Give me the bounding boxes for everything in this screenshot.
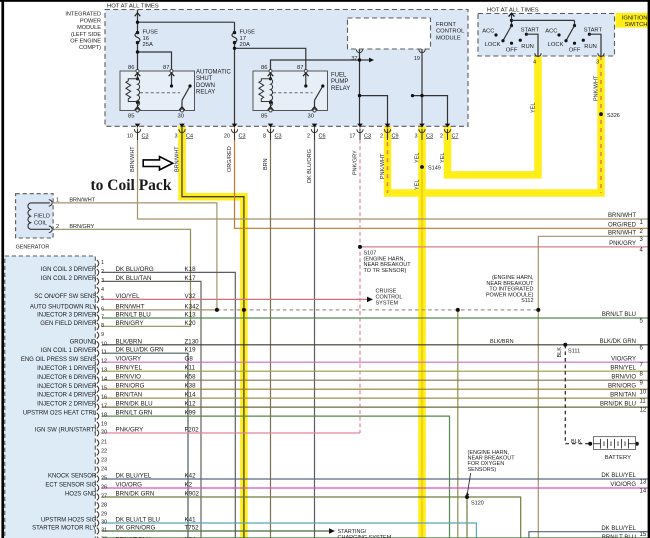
PCM left signal labels — [21, 267, 97, 532]
wire PNK/GRY dashed: IPM 17 C3 down through S107 to PCM pin 20 row — [359, 126, 361, 433]
svg-text:BLK/BRN: BLK/BRN — [490, 339, 514, 345]
dashed mechanical link ASD — [140, 92, 180, 94]
svg-text:19: 19 — [101, 422, 107, 428]
svg-text:LOCK: LOCK — [548, 42, 564, 48]
svg-text:C4: C4 — [186, 133, 193, 139]
battery cells — [594, 439, 636, 449]
svg-text:CONTROL: CONTROL — [436, 29, 465, 35]
core dashes of PNK/WHT wire (stub at 2 C9) — [387, 126, 389, 193]
svg-text:30: 30 — [101, 520, 107, 526]
ignition switch section 2 wiper — [566, 26, 575, 41]
svg-text:S111: S111 — [568, 348, 580, 354]
svg-text:4: 4 — [101, 287, 104, 293]
svg-text:BRN/ORG: BRN/ORG — [116, 383, 145, 390]
svg-text:PNK/WHT: PNK/WHT — [594, 75, 600, 101]
svg-text:BRN/LT BLU: BRN/LT BLU — [116, 312, 151, 319]
svg-text:ACC: ACC — [482, 29, 494, 35]
svg-text:SWITCH: SWITCH — [625, 22, 648, 28]
svg-text:S120: S120 — [471, 500, 484, 506]
splice S112 — [536, 308, 540, 312]
coil spring of FPR relay (wavy line between dots) — [271, 79, 273, 106]
wire fuse17 output to FPR 87 and down to 20 C3 — [234, 43, 236, 127]
ASD switch contact 87 stub — [171, 71, 173, 86]
svg-text:BRN/DK GRN: BRN/DK GRN — [116, 491, 155, 498]
wire BRN/YEL K11: PCM pin 13 to right edge (line 8) — [102, 370, 650, 372]
svg-text:K14: K14 — [185, 392, 197, 399]
svg-text:20: 20 — [224, 133, 230, 139]
svg-text:37: 37 — [351, 56, 357, 62]
svg-text:VIO/ORG: VIO/ORG — [610, 482, 636, 488]
wire DK BLU/YEL K42: PCM pin 25 to right edge (line 13) — [102, 478, 650, 480]
wire BLK/BRN Z130: PCM pin 10 to S111 — [102, 344, 565, 346]
wire feed branch to fuse 17 — [138, 21, 235, 23]
svg-text:SC ON/OFF SW SENS: SC ON/OFF SW SENS — [34, 294, 96, 300]
svg-text:VIO/GRY: VIO/GRY — [116, 356, 142, 363]
junction dot ignition feed — [510, 19, 513, 22]
svg-text:12: 12 — [101, 359, 107, 365]
label IGNITION SWITCH highlighted — [616, 13, 650, 28]
svg-text:S112: S112 — [521, 298, 533, 304]
svg-text:DK BLU/DK GRN: DK BLU/DK GRN — [116, 347, 164, 354]
svg-text:PNK/GRY: PNK/GRY — [609, 241, 636, 247]
svg-text:K41: K41 — [185, 517, 197, 524]
svg-text:FUSE: FUSE — [240, 30, 256, 36]
svg-text:BRN/ORG: BRN/ORG — [608, 383, 636, 389]
svg-text:OFF: OFF — [569, 48, 581, 54]
svg-text:BRN: BRN — [263, 158, 269, 170]
svg-text:K13: K13 — [185, 312, 197, 319]
svg-text:14: 14 — [640, 489, 647, 495]
svg-text:C3: C3 — [364, 133, 371, 139]
svg-text:C3: C3 — [275, 133, 282, 139]
svg-text:DK BLU/YEL: DK BLU/YEL — [601, 473, 636, 479]
svg-text:DK BLU/LT BLU: DK BLU/LT BLU — [116, 517, 160, 524]
svg-text:3: 3 — [596, 60, 599, 66]
svg-text:SYSTEM: SYSTEM — [376, 301, 399, 307]
svg-text:INJECTOR 4 DRIVER: INJECTOR 4 DRIVER — [37, 393, 97, 399]
svg-text:2: 2 — [101, 269, 104, 275]
coil resistor zigzag of ASD relay — [126, 79, 138, 102]
svg-text:S149: S149 — [428, 166, 441, 172]
battery box — [594, 437, 636, 450]
junction dot feed/fuse16 — [136, 21, 139, 24]
svg-text:PNK/GRY: PNK/GRY — [116, 427, 144, 434]
svg-text:C7: C7 — [452, 133, 459, 139]
svg-text:VIO/ORG: VIO/ORG — [116, 482, 143, 489]
svg-text:START: START — [584, 28, 603, 34]
battery terminal dots — [588, 442, 592, 446]
wire BRN/WHT: generator field coil pin 1 to junction, down to PCM pin6 row — [53, 203, 217, 310]
wire BRN/WHT: branch to right edge (line 1) — [138, 203, 650, 219]
svg-text:15: 15 — [640, 532, 647, 538]
wire BRN/WHT highlighted: ASD relay pin 30 (3 C4) to coil pack, bottom exit — [182, 126, 244, 538]
svg-text:1: 1 — [56, 198, 59, 204]
coil resistor zigzag of FPR relay — [259, 79, 271, 102]
svg-text:BRN/VIO: BRN/VIO — [116, 374, 142, 381]
relay FPR (fuel pump) — [253, 65, 350, 120]
svg-text:PNK/GRY: PNK/GRY — [353, 150, 359, 175]
pin 3 C3 connector — [419, 129, 425, 140]
svg-text:BRN/TAN: BRN/TAN — [116, 392, 143, 399]
svg-text:2: 2 — [440, 133, 443, 139]
svg-text:AUTOMATIC: AUTOMATIC — [196, 70, 231, 76]
svg-text:HOT AT ALL TIMES: HOT AT ALL TIMES — [487, 8, 539, 14]
svg-text:26: 26 — [101, 485, 107, 491]
svg-text:K902: K902 — [185, 491, 200, 498]
svg-text:POWER: POWER — [80, 18, 101, 24]
junction dot gen1/K342 — [215, 308, 219, 312]
svg-text:3: 3 — [414, 133, 417, 139]
svg-text:Z130: Z130 — [185, 338, 200, 345]
fuse F17 20A — [232, 30, 255, 48]
arrow right at FCM 37 junction — [369, 58, 374, 63]
leader line to S120 — [467, 473, 470, 494]
svg-text:ORG/RED: ORG/RED — [227, 146, 233, 172]
generator dashed border — [16, 194, 54, 238]
wire BLK/DK GRN: S111 to right edge (line 6) — [565, 344, 650, 346]
core line of highlighted YEL wire — [421, 126, 423, 538]
pin 10 C3 connector — [134, 129, 140, 140]
svg-text:IGN COIL 3 DRIVER: IGN COIL 3 DRIVER — [41, 267, 97, 273]
svg-text:K342: K342 — [185, 303, 200, 310]
svg-text:TO TR SENSOR): TO TR SENSOR) — [364, 268, 407, 274]
wire FCM pin 19 to 3 C3 / 2 C7 — [421, 49, 423, 126]
svg-text:UPSTRM HO2S SIG: UPSTRM HO2S SIG — [41, 518, 97, 524]
svg-text:K58: K58 — [185, 374, 197, 381]
pin 2 C9 connector — [384, 129, 390, 140]
wire BRN: IPM 8 C3 down off page — [270, 126, 272, 538]
svg-text:17: 17 — [240, 36, 246, 42]
junction dot FCM37 branch to 2 C9 — [358, 94, 361, 97]
section 1 output to pin 4 — [526, 34, 538, 56]
svg-text:BATTERY: BATTERY — [605, 455, 631, 461]
wire VIO/GRY G8: PCM pin 12 to right edge (line 7) — [102, 361, 650, 363]
svg-text:GEN FIELD DRIVER: GEN FIELD DRIVER — [40, 321, 97, 327]
wire DK BLU/ORG: IPM 2 C6 down off page — [314, 126, 316, 538]
svg-text:2: 2 — [307, 133, 310, 139]
PCM pin socket glyphs — [97, 260, 99, 538]
junction dot K342 mid — [456, 308, 460, 312]
pin 20 C3 connector — [231, 129, 237, 140]
svg-text:24: 24 — [101, 467, 107, 473]
wire ORG/RED: IPM 20 C3 to right edge (line 2) — [235, 126, 650, 228]
svg-text:10: 10 — [101, 341, 107, 347]
svg-text:C6: C6 — [319, 133, 326, 139]
svg-text:3: 3 — [174, 133, 177, 139]
svg-text:BLK: BLK — [571, 439, 582, 445]
svg-text:16: 16 — [143, 36, 149, 42]
svg-text:T752: T752 — [185, 525, 200, 532]
junction dot coilpack/K342 — [242, 308, 246, 312]
svg-text:31: 31 — [101, 528, 107, 534]
svg-text:DK BLU/YEL: DK BLU/YEL — [116, 473, 152, 480]
svg-text:22: 22 — [101, 449, 107, 455]
svg-text:18: 18 — [101, 413, 107, 419]
wire fuse16 output to ASD relay pins 86 and 87 — [137, 43, 139, 71]
svg-text:BLK/BRN: BLK/BRN — [116, 338, 142, 345]
svg-text:BRN/TAN: BRN/TAN — [610, 392, 636, 398]
svg-text:30: 30 — [178, 114, 184, 120]
svg-text:COMPT): COMPT) — [79, 45, 101, 51]
svg-text:30: 30 — [308, 114, 314, 120]
svg-text:15: 15 — [101, 386, 107, 392]
svg-text:9: 9 — [101, 332, 104, 338]
svg-text:K17: K17 — [185, 275, 197, 282]
svg-text:START: START — [521, 28, 540, 34]
svg-text:14: 14 — [101, 377, 107, 383]
wire BRN/GRY: generator field coil pin 2 to PCM pin 8 (GEN FIELD DRIVER K20) — [53, 229, 191, 326]
svg-text:PNK/WHT: PNK/WHT — [380, 153, 386, 179]
connector circles at FPR pins — [269, 70, 316, 113]
section 2 position dots — [557, 33, 560, 36]
svg-text:DK BLU/TAN: DK BLU/TAN — [116, 275, 152, 282]
svg-text:ORG/RED: ORG/RED — [608, 223, 637, 229]
svg-text:29: 29 — [101, 511, 107, 517]
integrated power module dashed border — [105, 10, 468, 127]
pin 17 C3 connector — [357, 129, 363, 140]
svg-text:FUEL: FUEL — [331, 73, 347, 79]
svg-text:(LEFT SIDE: (LEFT SIDE — [71, 32, 101, 38]
generator pin 2 connector — [49, 226, 52, 233]
coil spring of ASD relay (wavy line between dots) — [138, 79, 140, 106]
splice S326 — [599, 112, 603, 116]
wire from K342 junction down off page — [457, 310, 459, 538]
svg-text:BRN/WHT: BRN/WHT — [608, 231, 636, 237]
svg-text:ENG OIL PRESS SW SENS: ENG OIL PRESS SW SENS — [21, 357, 96, 363]
wire VIO/ORG K2: PCM pin 26 to right edge (line 14) — [102, 487, 650, 489]
svg-text:RUN: RUN — [584, 44, 597, 50]
svg-text:85: 85 — [128, 114, 134, 120]
svg-text:BRN/GRY: BRN/GRY — [116, 320, 144, 327]
svg-text:STARTER MOTOR RLY: STARTER MOTOR RLY — [32, 526, 96, 532]
svg-text:BRN/WHT: BRN/WHT — [175, 146, 181, 172]
svg-text:K99: K99 — [185, 410, 197, 417]
wire BRN/VIO K58: PCM pin 14 to right edge (line 9) — [102, 379, 650, 381]
wire DK GRN/ORG T752: PCM pin 31 to starting/charging arrow — [102, 530, 330, 532]
connector chevron at ignition feed — [509, 13, 515, 16]
wire DK BLU/ORG K18: PCM pin 2 to bottom (ign coil 3) — [102, 272, 235, 538]
core line of highlighted BRN/WHT wire — [182, 126, 244, 538]
wire BRN/ORG K38: PCM pin 15 to right edge (line 10) — [102, 388, 650, 390]
svg-text:YEL: YEL — [415, 180, 421, 190]
wire PNK/WHT highlighted: ignition switch pin 3 to IPM 2 C9 — [388, 56, 602, 193]
connector fork at ignition pin 4 — [535, 53, 541, 56]
svg-text:C3: C3 — [142, 133, 149, 139]
connector circles at ASD pins — [136, 70, 184, 113]
svg-text:MODULE: MODULE — [436, 35, 461, 41]
svg-text:25A: 25A — [143, 42, 153, 48]
svg-text:27: 27 — [101, 494, 107, 500]
generator pin 1 connector — [49, 200, 52, 207]
wire feed to second switch section — [512, 19, 575, 21]
svg-text:5: 5 — [101, 296, 104, 302]
svg-text:FRONT: FRONT — [436, 22, 456, 28]
svg-text:FUSE: FUSE — [143, 30, 159, 36]
wire BRN/LT GRN K99: PCM pin 18 down off page — [102, 416, 450, 538]
wire BLK dashed: S111 down and to battery — [565, 345, 590, 444]
wire BRN/LT BLU K13: PCM pin 7 to right edge (line 5) — [102, 317, 650, 319]
front control module dashed border — [348, 18, 431, 49]
wire FCM pin 37 to fuel pump relay 86 and to 17 C3 / 2 C9 — [359, 49, 361, 126]
svg-text:12: 12 — [640, 408, 647, 414]
ignition switch section 1 wiper — [503, 26, 512, 41]
wire YEL highlighted: ignition switch pin 4 to IPM 2 C7 — [448, 56, 539, 175]
wire BRN/WHT K342 solid part: PCM pin 6 to junction — [102, 309, 217, 311]
svg-text:F202: F202 — [185, 427, 200, 434]
svg-text:AUTO SHUTDOWN RLY: AUTO SHUTDOWN RLY — [30, 305, 96, 311]
svg-text:10: 10 — [640, 390, 647, 396]
svg-text:INJECTOR 1 DRIVER: INJECTOR 1 DRIVER — [37, 366, 97, 372]
wire PNK/GRY: S107 to right edge (line 4) — [360, 246, 650, 248]
svg-text:K20: K20 — [185, 320, 197, 327]
svg-text:8: 8 — [101, 323, 104, 329]
svg-text:17: 17 — [101, 404, 107, 410]
splice S111 — [563, 343, 567, 347]
svg-text:RUN: RUN — [521, 44, 534, 50]
svg-text:DK GRN/ORG: DK GRN/ORG — [116, 525, 156, 532]
svg-text:DK BLU/ORG: DK BLU/ORG — [307, 149, 313, 183]
PCM pin numbers — [101, 260, 107, 538]
svg-text:8: 8 — [263, 133, 266, 139]
wire BRN/TAN K14: PCM pin 16 to right edge (line 11) — [102, 397, 650, 399]
svg-text:HO2S GND: HO2S GND — [65, 492, 97, 498]
wire BRN/DK GRN K902: PCM pin 27 to S120 — [102, 496, 467, 498]
connector arrowheads at IPM bottom edge — [135, 124, 451, 128]
svg-text:11: 11 — [101, 350, 107, 356]
wire DK BLU/YEL: from off page bottom to right edge (line 15) — [529, 532, 650, 538]
svg-text:BRN/WHT: BRN/WHT — [69, 198, 95, 204]
svg-text:6: 6 — [101, 306, 104, 312]
svg-text:DK BLU/ORG: DK BLU/ORG — [116, 266, 154, 273]
svg-text:COIL: COIL — [34, 220, 47, 226]
splice S107 — [358, 245, 362, 249]
splice S120 — [465, 495, 469, 499]
svg-text:85: 85 — [261, 114, 267, 120]
svg-text:K12: K12 — [185, 401, 197, 408]
svg-text:C3: C3 — [239, 133, 246, 139]
svg-text:BRN/WHT: BRN/WHT — [608, 213, 636, 219]
svg-text:IGN SW (RUN/START): IGN SW (RUN/START) — [35, 428, 96, 434]
pin 2 C7 connector — [444, 129, 450, 140]
front control module box fill — [348, 18, 431, 49]
FPR switch arm — [315, 86, 323, 100]
svg-text:23: 23 — [101, 458, 107, 464]
core dashes of PNK/WHT wire (vertical from ignition switch) — [600, 56, 602, 193]
junction dot FCM37/FPR86 — [358, 58, 361, 61]
svg-text:VIO/GRY: VIO/GRY — [611, 356, 636, 362]
svg-text:UPSTRM O2S HEAT CTRL: UPSTRM O2S HEAT CTRL — [23, 411, 97, 417]
stub dot left of FCM19 branch — [411, 94, 414, 97]
svg-text:OFF: OFF — [506, 48, 518, 54]
svg-text:1: 1 — [101, 260, 104, 266]
junction dot fuse17 branch — [233, 47, 236, 50]
label S112 (engine harn near breakout to integrated power module) — [486, 275, 534, 304]
svg-text:DK BLU/YEL: DK BLU/YEL — [601, 526, 636, 532]
svg-text:BRN/LT GRN: BRN/LT GRN — [116, 410, 153, 417]
svg-text:IGN COIL 2 DRIVER: IGN COIL 2 DRIVER — [41, 276, 97, 282]
svg-text:SHUT: SHUT — [196, 76, 213, 82]
wire BRN/WHT: S112 up to right edge line 3 — [538, 236, 650, 310]
ignition switch box fill — [478, 14, 615, 57]
svg-text:BRN/DK BLU: BRN/DK BLU — [600, 401, 636, 407]
FPR switch contact 87 stub — [305, 71, 307, 86]
svg-text:BRN/WHT: BRN/WHT — [130, 146, 136, 172]
wire hot feed into IPM — [137, 10, 139, 33]
wire BRN/WHT: S112 down off page — [537, 310, 539, 538]
integrated power module box fill — [105, 10, 468, 127]
svg-text:BLK: BLK — [557, 347, 563, 358]
pin 2 C6 connector — [311, 129, 317, 140]
pin 3 C4 connector — [179, 129, 185, 140]
svg-text:BRN/LT BLU: BRN/LT BLU — [602, 312, 636, 318]
splice S149 — [420, 165, 424, 169]
svg-text:25: 25 — [101, 476, 107, 482]
svg-text:BLK/DK GRN: BLK/DK GRN — [600, 339, 636, 345]
wire ignition feed stub — [511, 13, 513, 26]
wire YEL highlighted: IPM 3 C3 down off page — [418, 126, 426, 538]
svg-text:11: 11 — [640, 399, 647, 405]
svg-text:BRN/WHT: BRN/WHT — [116, 303, 145, 310]
svg-text:IGNITION: IGNITION — [622, 15, 648, 21]
svg-text:IGN COIL 1 DRIVER: IGN COIL 1 DRIVER — [41, 348, 97, 354]
wire BRN/DK GRN: S120 down off page — [466, 497, 468, 538]
svg-text:87: 87 — [297, 65, 303, 71]
dashed mechanical link FPR — [273, 92, 313, 94]
junction dot FCM19 branch to 2 C7 — [420, 94, 423, 97]
svg-text:YEL: YEL — [415, 153, 421, 163]
svg-text:16: 16 — [101, 395, 107, 401]
svg-text:BRN/VIO: BRN/VIO — [611, 374, 636, 380]
wire DK BLU/DK GRN K19: PCM pin 11 to bottom (ign coil 1) — [102, 353, 188, 538]
svg-text:10: 10 — [127, 133, 133, 139]
wire BRN/DK BLU K12: PCM pin 17 to right edge (line 12) — [102, 406, 650, 408]
svg-text:C3: C3 — [426, 133, 433, 139]
section 1 position dots — [494, 33, 497, 36]
svg-text:K38: K38 — [185, 383, 197, 390]
svg-text:BRN/YEL: BRN/YEL — [610, 365, 636, 371]
svg-text:ACC: ACC — [545, 29, 557, 35]
svg-text:20A: 20A — [240, 42, 250, 48]
wire BRN/LT BLU K84: PCM pin 32 partial at bottom edge — [102, 537, 650, 538]
svg-text:87: 87 — [163, 65, 169, 71]
connector chevrons at relay pins — [135, 73, 318, 110]
svg-text:BRN/GRY: BRN/GRY — [69, 224, 94, 230]
svg-text:KNOCK SENSOR: KNOCK SENSOR — [48, 474, 97, 480]
wire BRN/DK GRN: S120 right branch down off page — [467, 497, 521, 538]
svg-text:RELAY: RELAY — [196, 90, 215, 96]
arrow to coil pack (hollow) — [143, 157, 173, 170]
connector forks at FCM pins 37/19 — [356, 49, 362, 52]
wire BRN/WHT: IPM 10 C3 down to generator field pin 1 row — [137, 126, 139, 203]
svg-text:BRN/DK BLU: BRN/DK BLU — [116, 401, 153, 408]
svg-text:V32: V32 — [185, 293, 197, 300]
svg-text:17: 17 — [349, 133, 355, 139]
ignition switch dashed border — [478, 14, 615, 57]
svg-text:YEL: YEL — [440, 153, 446, 163]
svg-text:K18: K18 — [185, 266, 197, 273]
svg-text:MODULE: MODULE — [77, 25, 101, 31]
svg-text:2: 2 — [380, 133, 383, 139]
svg-text:G8: G8 — [185, 356, 194, 363]
PCM connector box fill — [5, 256, 96, 538]
svg-text:13: 13 — [640, 480, 647, 486]
svg-text:C9: C9 — [392, 133, 399, 139]
svg-text:K42: K42 — [185, 473, 197, 480]
svg-text:K2: K2 — [185, 482, 193, 489]
svg-text:GENERATOR: GENERATOR — [16, 244, 50, 250]
svg-text:19: 19 — [414, 56, 420, 62]
svg-text:to Coil Pack: to Coil Pack — [91, 177, 172, 194]
